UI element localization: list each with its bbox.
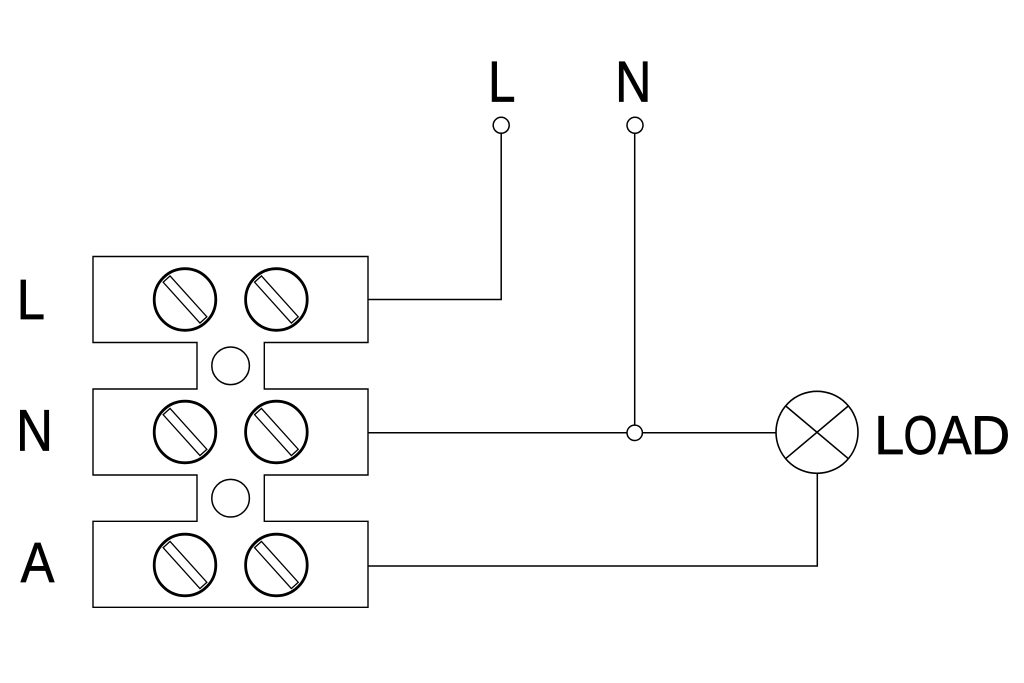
svg-text:L: L [874,405,904,466]
screw N1 (row N left) [154,401,216,463]
wire: N row horizontal to lamp [368,432,776,434]
node: junction of N wire and N row wire (open circle) [627,425,642,440]
wire: L supply drop from terminal to block row L [368,133,501,299]
neck hole circle between L and N blocks [212,347,250,385]
lamp LOAD symbol [776,391,858,473]
svg-text:D: D [971,405,1011,466]
wire: N supply vertical drop [634,133,636,433]
svg-text:A: A [21,532,55,595]
screw N2 (row N right) [246,401,308,463]
wire: A row horizontal to below lamp, then up to lamp bottom [368,473,817,566]
svg-text:A: A [938,405,972,466]
screw A1 (row A left) [154,534,216,596]
screw L1 (row L left) [154,269,216,331]
svg-text:O: O [904,405,938,466]
svg-text:L: L [488,50,516,114]
svg-text:N: N [615,50,651,114]
terminal block strip outline (3 blocks joined by center necks) [93,257,368,608]
node: L supply terminal circle [493,117,509,133]
screw L2 (row L right) [246,269,308,331]
svg-text:L: L [17,269,45,332]
screw A2 (row A right) [246,534,308,596]
svg-text:N: N [16,399,53,464]
neck hole circle between N and A blocks [212,479,250,517]
node: N supply terminal circle [627,117,643,133]
